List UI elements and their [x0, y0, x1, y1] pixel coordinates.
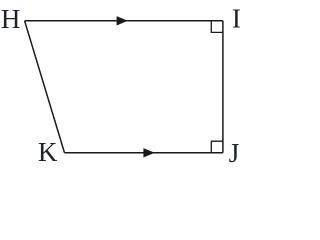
svg-text:K: K	[38, 137, 58, 167]
arrow on HI	[117, 16, 128, 25]
side KJ (bottom, parallel mark)	[65, 152, 223, 154]
side HK (left, slanted)	[25, 21, 65, 153]
right angle marker at I	[211, 21, 223, 33]
svg-text:I: I	[232, 4, 241, 34]
svg-text:J: J	[229, 138, 240, 168]
right angle marker at J	[211, 141, 223, 153]
side HI (top, parallel mark)	[25, 20, 223, 22]
side IJ (right, vertical)	[222, 21, 224, 153]
svg-text:H: H	[1, 4, 21, 34]
arrow on KJ	[143, 148, 154, 157]
